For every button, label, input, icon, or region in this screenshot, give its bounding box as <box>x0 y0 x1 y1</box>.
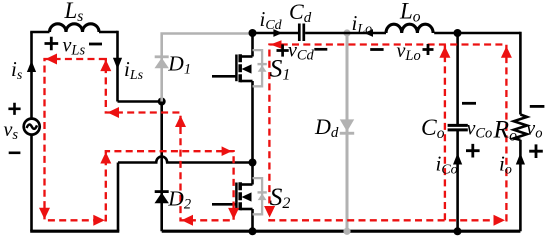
wire middle horizontal with hop <box>118 157 253 163</box>
gray node Dd bottom <box>343 228 350 235</box>
minus sign of vLo <box>370 48 383 51</box>
diode D2 <box>155 190 169 203</box>
current arrow i_Cd (east) <box>273 29 282 37</box>
plus sign of vCd <box>277 44 289 56</box>
minus sign of vo <box>530 105 545 108</box>
wire bottom rail <box>162 230 521 233</box>
wire top rail Cd to Lo <box>305 32 386 35</box>
wire left vertical (vs branch) <box>30 32 33 231</box>
red arrow west on y43.9 <box>270 40 281 48</box>
gray D1 branch (up and over to S node) <box>162 34 253 102</box>
plus sign of vs <box>8 103 20 115</box>
diode D1 gray <box>155 55 169 68</box>
red Co-branch path <box>444 45 446 221</box>
red arrow west on y219.6 left <box>182 215 194 226</box>
current arrow i_Co (up) <box>453 153 462 165</box>
wire S branch lower (S2 source to bottom rail) <box>251 209 254 231</box>
source vs sine <box>27 125 37 129</box>
red arrow down on x44.5 <box>39 208 50 220</box>
source vs circle <box>24 119 40 135</box>
red arrow up on x105.8 upper <box>100 60 111 72</box>
red arrow west on y111 <box>108 107 120 118</box>
plus sign of vLs <box>45 37 59 51</box>
red arrow up on x180.5 <box>175 116 186 128</box>
wire Ro branch upper <box>519 32 522 115</box>
red arrow down on x233.8 <box>228 208 239 220</box>
red arrow up on x505.6 <box>501 46 512 58</box>
plus sign of vo <box>529 144 543 158</box>
wire horizontal to D-branch node <box>118 100 162 103</box>
current arrow i_o (up) <box>516 153 525 165</box>
node S branch bottom <box>249 227 257 235</box>
plus sign of vLo <box>423 44 434 55</box>
red arrow west on y59 <box>46 54 58 65</box>
wire Co branch upper <box>456 33 459 124</box>
wire top-left segment <box>30 31 49 34</box>
resistor Ro zigzag <box>514 115 527 140</box>
node S branch middle <box>249 159 257 167</box>
node S branch top <box>249 29 257 37</box>
gray Dd branch <box>346 33 349 231</box>
wire D2 branch vertical <box>160 102 163 232</box>
wire Ro branch lower <box>519 140 522 231</box>
wire upper-right vertical of input loop <box>116 31 119 102</box>
red input-loop path <box>45 59 234 220</box>
red arrow east on y220.4 <box>93 215 105 226</box>
mosfet S1 <box>212 54 253 82</box>
node at D branch top <box>158 98 166 106</box>
current arrow i_Lo (west) <box>364 29 373 37</box>
wire S branch middle (S1 source to S2 drain) <box>251 81 254 185</box>
mosfet S2 <box>212 182 253 210</box>
wire lower-left vertical of middle wire <box>117 163 120 232</box>
red arrow down on x269.6 <box>264 206 275 218</box>
minus sign of vCd <box>314 48 327 51</box>
red arrow up on x444.9 <box>439 46 450 58</box>
inductor Lo <box>386 24 433 33</box>
body diode of S2 gray <box>253 178 267 214</box>
red arrow east on y151.3 <box>222 146 232 156</box>
wire Ls to corner <box>99 31 118 34</box>
current arrow i_Ls (down) <box>113 58 122 69</box>
node Co branch bottom <box>454 227 462 235</box>
body diode of S1 gray <box>253 50 267 86</box>
wire top rail left of Cd <box>253 32 299 35</box>
minus sign of vLs <box>89 43 102 46</box>
plus sign of vCo <box>466 144 480 158</box>
gray node Dd top <box>343 29 350 36</box>
minus sign of vs <box>9 152 21 155</box>
red arrow east on y219.6 right <box>494 215 506 226</box>
wire bottom-left <box>30 230 119 233</box>
current arrow i_s (up) <box>27 61 36 72</box>
inductor Ls <box>50 24 100 32</box>
red output-loop path <box>269 45 506 221</box>
wire S branch upper (rail to S1 drain) <box>251 33 254 57</box>
minus sign of vCo <box>462 102 476 105</box>
red arrow up on x105.8 lower <box>100 152 111 164</box>
node Co branch top <box>454 29 462 37</box>
capacitor Co <box>448 125 468 129</box>
wire top rail Lo to corner <box>434 32 520 35</box>
capacitor Cd <box>299 24 304 42</box>
diode Dd gray <box>340 119 354 134</box>
wire Co branch lower <box>456 131 459 231</box>
